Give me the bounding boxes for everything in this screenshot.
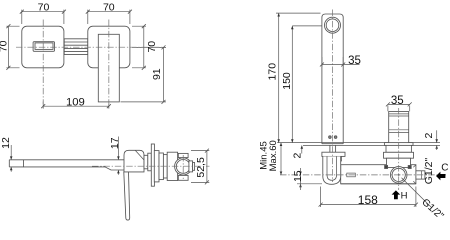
cold inlet stub — [416, 171, 425, 179]
spout escutcheon square — [22, 26, 64, 68]
svg-text:91: 91 — [151, 68, 163, 80]
dim 35 cartridge : dim line — [388, 103, 410, 105]
elbow outer — [323, 156, 341, 184]
arrow C — [436, 172, 445, 181]
body bottom line — [341, 183, 416, 185]
valve top lug — [178, 153, 188, 157]
valve circle inner — [176, 160, 190, 174]
wall flange plate side — [151, 144, 154, 186]
spout aerator joint line — [23, 160, 25, 167]
hot inlet circle inner — [392, 168, 405, 181]
body ring 2 — [159, 153, 163, 180]
dim 158 : ext lines — [321, 187, 416, 208]
body ring 3 — [163, 155, 167, 178]
FRONT VIEW GROUP — [16, 10, 446, 208]
svg-text:70: 70 — [146, 41, 158, 53]
connector nipple — [64, 39, 88, 55]
cold inlet cap line — [420, 171, 422, 179]
spout bar side — [9, 160, 124, 170]
dim 109 : dim line — [43, 105, 109, 107]
svg-text:70: 70 — [38, 1, 50, 13]
svg-text:H: H — [401, 190, 408, 201]
cartridge shoulder — [384, 152, 414, 158]
dim 70 left side : dim line — [7, 26, 9, 68]
inlet stub cap — [193, 163, 195, 171]
svg-text:109: 109 — [66, 96, 85, 108]
dim 70 right-square top : dim line — [88, 11, 130, 13]
svg-text:150: 150 — [281, 72, 293, 90]
svg-text:G1/2": G1/2" — [419, 197, 445, 222]
outlet circle inner — [326, 19, 339, 32]
svg-text:17: 17 — [109, 137, 121, 149]
handle pivot diagonal — [135, 150, 144, 159]
dim 91 : ext lines — [121, 47, 167, 102]
svg-text:170: 170 — [267, 63, 279, 81]
adapter ring 2 — [148, 153, 152, 171]
dim 170 : dim line — [278, 13, 280, 143]
cartridge cap lines — [389, 114, 409, 133]
spout mounting plate — [322, 152, 345, 156]
valve block — [167, 152, 177, 180]
svg-text:158: 158 — [358, 193, 378, 207]
elbow inner — [327, 156, 337, 180]
svg-text:35: 35 — [391, 95, 404, 107]
dim 70 left-square top : ext lines — [22, 10, 64, 24]
handle body side — [124, 150, 144, 172]
dim 70 right of handle square : dim line — [143, 26, 145, 68]
svg-text:70: 70 — [103, 1, 115, 13]
dim 158 : dim line — [321, 204, 416, 206]
dim min45 max60 : dim line — [280, 143, 282, 175]
svg-text:G1/2": G1/2" — [423, 157, 435, 184]
centerline body axis horizontal — [280, 174, 446, 176]
valve circle outer — [175, 158, 192, 175]
SIDE VIEW GROUP — [9, 137, 209, 221]
fixing screw right — [334, 136, 337, 139]
svg-text:12: 12 — [0, 137, 12, 149]
svg-text:70: 70 — [0, 40, 10, 52]
PLAN VIEW GROUP — [6, 10, 166, 109]
adapter ring 1 — [144, 155, 148, 169]
svg-text:C: C — [441, 163, 448, 174]
dim 2 right : dim line — [436, 130, 438, 142]
svg-text:35: 35 — [348, 55, 361, 67]
dim 35 riser : dim line — [322, 64, 360, 66]
dim 170 : top ext line — [276, 12, 321, 14]
cartridge stem above wall — [389, 112, 409, 143]
dim 35 riser : ext lines — [322, 57, 343, 67]
nut left — [385, 166, 388, 169]
svg-text:15: 15 — [292, 170, 304, 182]
dim 70 left side : ext lines — [6, 26, 19, 68]
centerline plan handle vertical — [108, 20, 110, 105]
nut right — [408, 166, 411, 169]
dim 150 : dim line — [291, 26, 293, 143]
arrow H — [392, 190, 401, 199]
aerator outer rect — [33, 42, 54, 52]
svg-text:52,5: 52,5 — [195, 157, 207, 178]
svg-text:2: 2 — [423, 133, 435, 139]
dim 15 : ext line — [297, 183, 322, 185]
centerline side valve vertical — [182, 155, 184, 179]
body right end bevel — [413, 165, 416, 184]
aerator inner rect — [35, 43, 53, 50]
wall surface line — [277, 142, 440, 144]
leader line G1/2 hot — [402, 178, 432, 208]
centerline plan horizontal axis — [16, 46, 164, 48]
body ring 1 — [154, 151, 159, 182]
centerline group — [16, 10, 446, 191]
dim 70 left-square top : dim line — [22, 11, 64, 13]
cartridge lower body — [387, 158, 411, 167]
centerline plan spout vertical — [42, 20, 44, 105]
svg-text:2: 2 — [292, 153, 304, 159]
cartridge flange — [384, 143, 413, 146]
main body tube — [341, 165, 416, 184]
dim 70 right of handle square : ext lines — [132, 26, 146, 68]
inlet stub side — [189, 161, 193, 172]
plate screws — [324, 156, 342, 161]
dim 109 : ext lines — [43, 102, 109, 109]
riser tube — [322, 14, 343, 144]
valve bottom lug — [178, 175, 188, 180]
tube stem below wall — [330, 145, 336, 152]
dim 17 : dim line and arrows — [117, 137, 119, 175]
centerline side view axis — [92, 165, 210, 167]
dim 70 right-square top : ext lines — [88, 10, 130, 24]
dim 2 left : dim line — [301, 145, 303, 153]
dim 35 cartridge : ext lines — [388, 106, 410, 112]
svg-text:Max.60: Max.60 — [268, 140, 279, 171]
handle lever bar — [124, 172, 130, 220]
centerline cartridge vertical — [398, 108, 400, 190]
hot inlet circle outer — [390, 167, 407, 184]
handle lever plan rect — [98, 34, 119, 102]
handle escutcheon square — [88, 26, 130, 68]
outlet circle outer — [325, 17, 341, 33]
wall plate lower line — [303, 144, 440, 146]
dim 150 : top ext line — [292, 25, 322, 27]
centerline riser tube vertical — [332, 10, 334, 183]
tube bottom edge — [322, 143, 343, 145]
cartridge neck — [386, 145, 411, 152]
hot inlet center dot — [398, 174, 400, 176]
dim 52,5 : dim line — [206, 151, 208, 183]
dim 52,5 : ext lines — [191, 151, 209, 183]
dim 12 : dim line and arrows — [10, 145, 12, 172]
body slot detail — [347, 173, 356, 177]
fixing screw left — [329, 136, 332, 139]
dim 15 : dim line — [300, 175, 302, 184]
dim 91 : dim line — [163, 47, 165, 102]
